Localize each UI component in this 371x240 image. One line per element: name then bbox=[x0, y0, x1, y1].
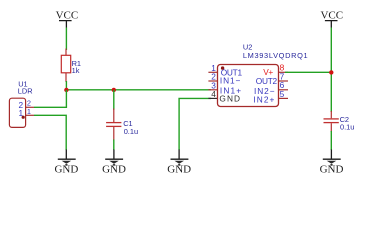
capacitor C2 bbox=[324, 111, 355, 132]
svg-text:VCC: VCC bbox=[320, 9, 343, 21]
svg-text:GND: GND bbox=[219, 93, 241, 103]
svg-text:1: 1 bbox=[27, 107, 31, 116]
svg-text:IN1−: IN1− bbox=[220, 76, 241, 86]
wire C2 to GND bbox=[330, 131, 332, 150]
svg-text:0.1u: 0.1u bbox=[340, 123, 354, 132]
svg-text:IN2+: IN2+ bbox=[253, 94, 275, 104]
wire R1 to node A bbox=[65, 81, 67, 90]
wire U1 pin2 to node A bbox=[34, 90, 66, 107]
ground GND4 bbox=[320, 150, 344, 176]
wire VCC1 to R1 bbox=[65, 28, 67, 51]
svg-text:LM393LVQDRQ1: LM393LVQDRQ1 bbox=[243, 51, 308, 60]
ground GND2 bbox=[102, 150, 126, 176]
wire U1 pin1 to GND bbox=[34, 115, 66, 150]
svg-text:4: 4 bbox=[211, 89, 216, 99]
pin stubs right bbox=[279, 71, 289, 73]
power flag VCC (right) bbox=[320, 9, 343, 27]
svg-text:1k: 1k bbox=[72, 66, 80, 75]
wire U2 pin4 to GND bbox=[179, 98, 211, 150]
photoresistor U1 LDR bbox=[9, 80, 34, 128]
pin stubs left bbox=[208, 71, 217, 73]
svg-text:VCC: VCC bbox=[56, 9, 79, 21]
resistor R1 bbox=[61, 49, 81, 83]
svg-text:GND: GND bbox=[102, 164, 126, 176]
capacitor C1 bbox=[106, 90, 138, 141]
svg-text:GND: GND bbox=[167, 164, 191, 176]
svg-text:GND: GND bbox=[320, 164, 344, 176]
junction node A bbox=[64, 88, 68, 92]
ground GND1 bbox=[54, 150, 78, 176]
op-amp U2 LM393LVQDRQ1 bbox=[208, 42, 308, 106]
svg-text:0.1u: 0.1u bbox=[124, 127, 138, 136]
ground GND3 bbox=[167, 150, 191, 176]
wire U2 pin8 to VCC node bbox=[285, 71, 331, 73]
wire C1 to GND bbox=[113, 140, 115, 151]
svg-text:LDR: LDR bbox=[18, 87, 33, 96]
junction node at C1 bbox=[112, 88, 116, 92]
wire node A bus to U2 pin3 bbox=[66, 89, 211, 91]
power flag VCC (left) bbox=[56, 9, 79, 27]
svg-text:5: 5 bbox=[280, 89, 285, 99]
svg-text:GND: GND bbox=[54, 164, 78, 176]
wire VCC2 down to C2 bbox=[330, 28, 332, 113]
junction node VCC right bbox=[329, 70, 333, 74]
svg-text:OUT2: OUT2 bbox=[256, 76, 278, 86]
